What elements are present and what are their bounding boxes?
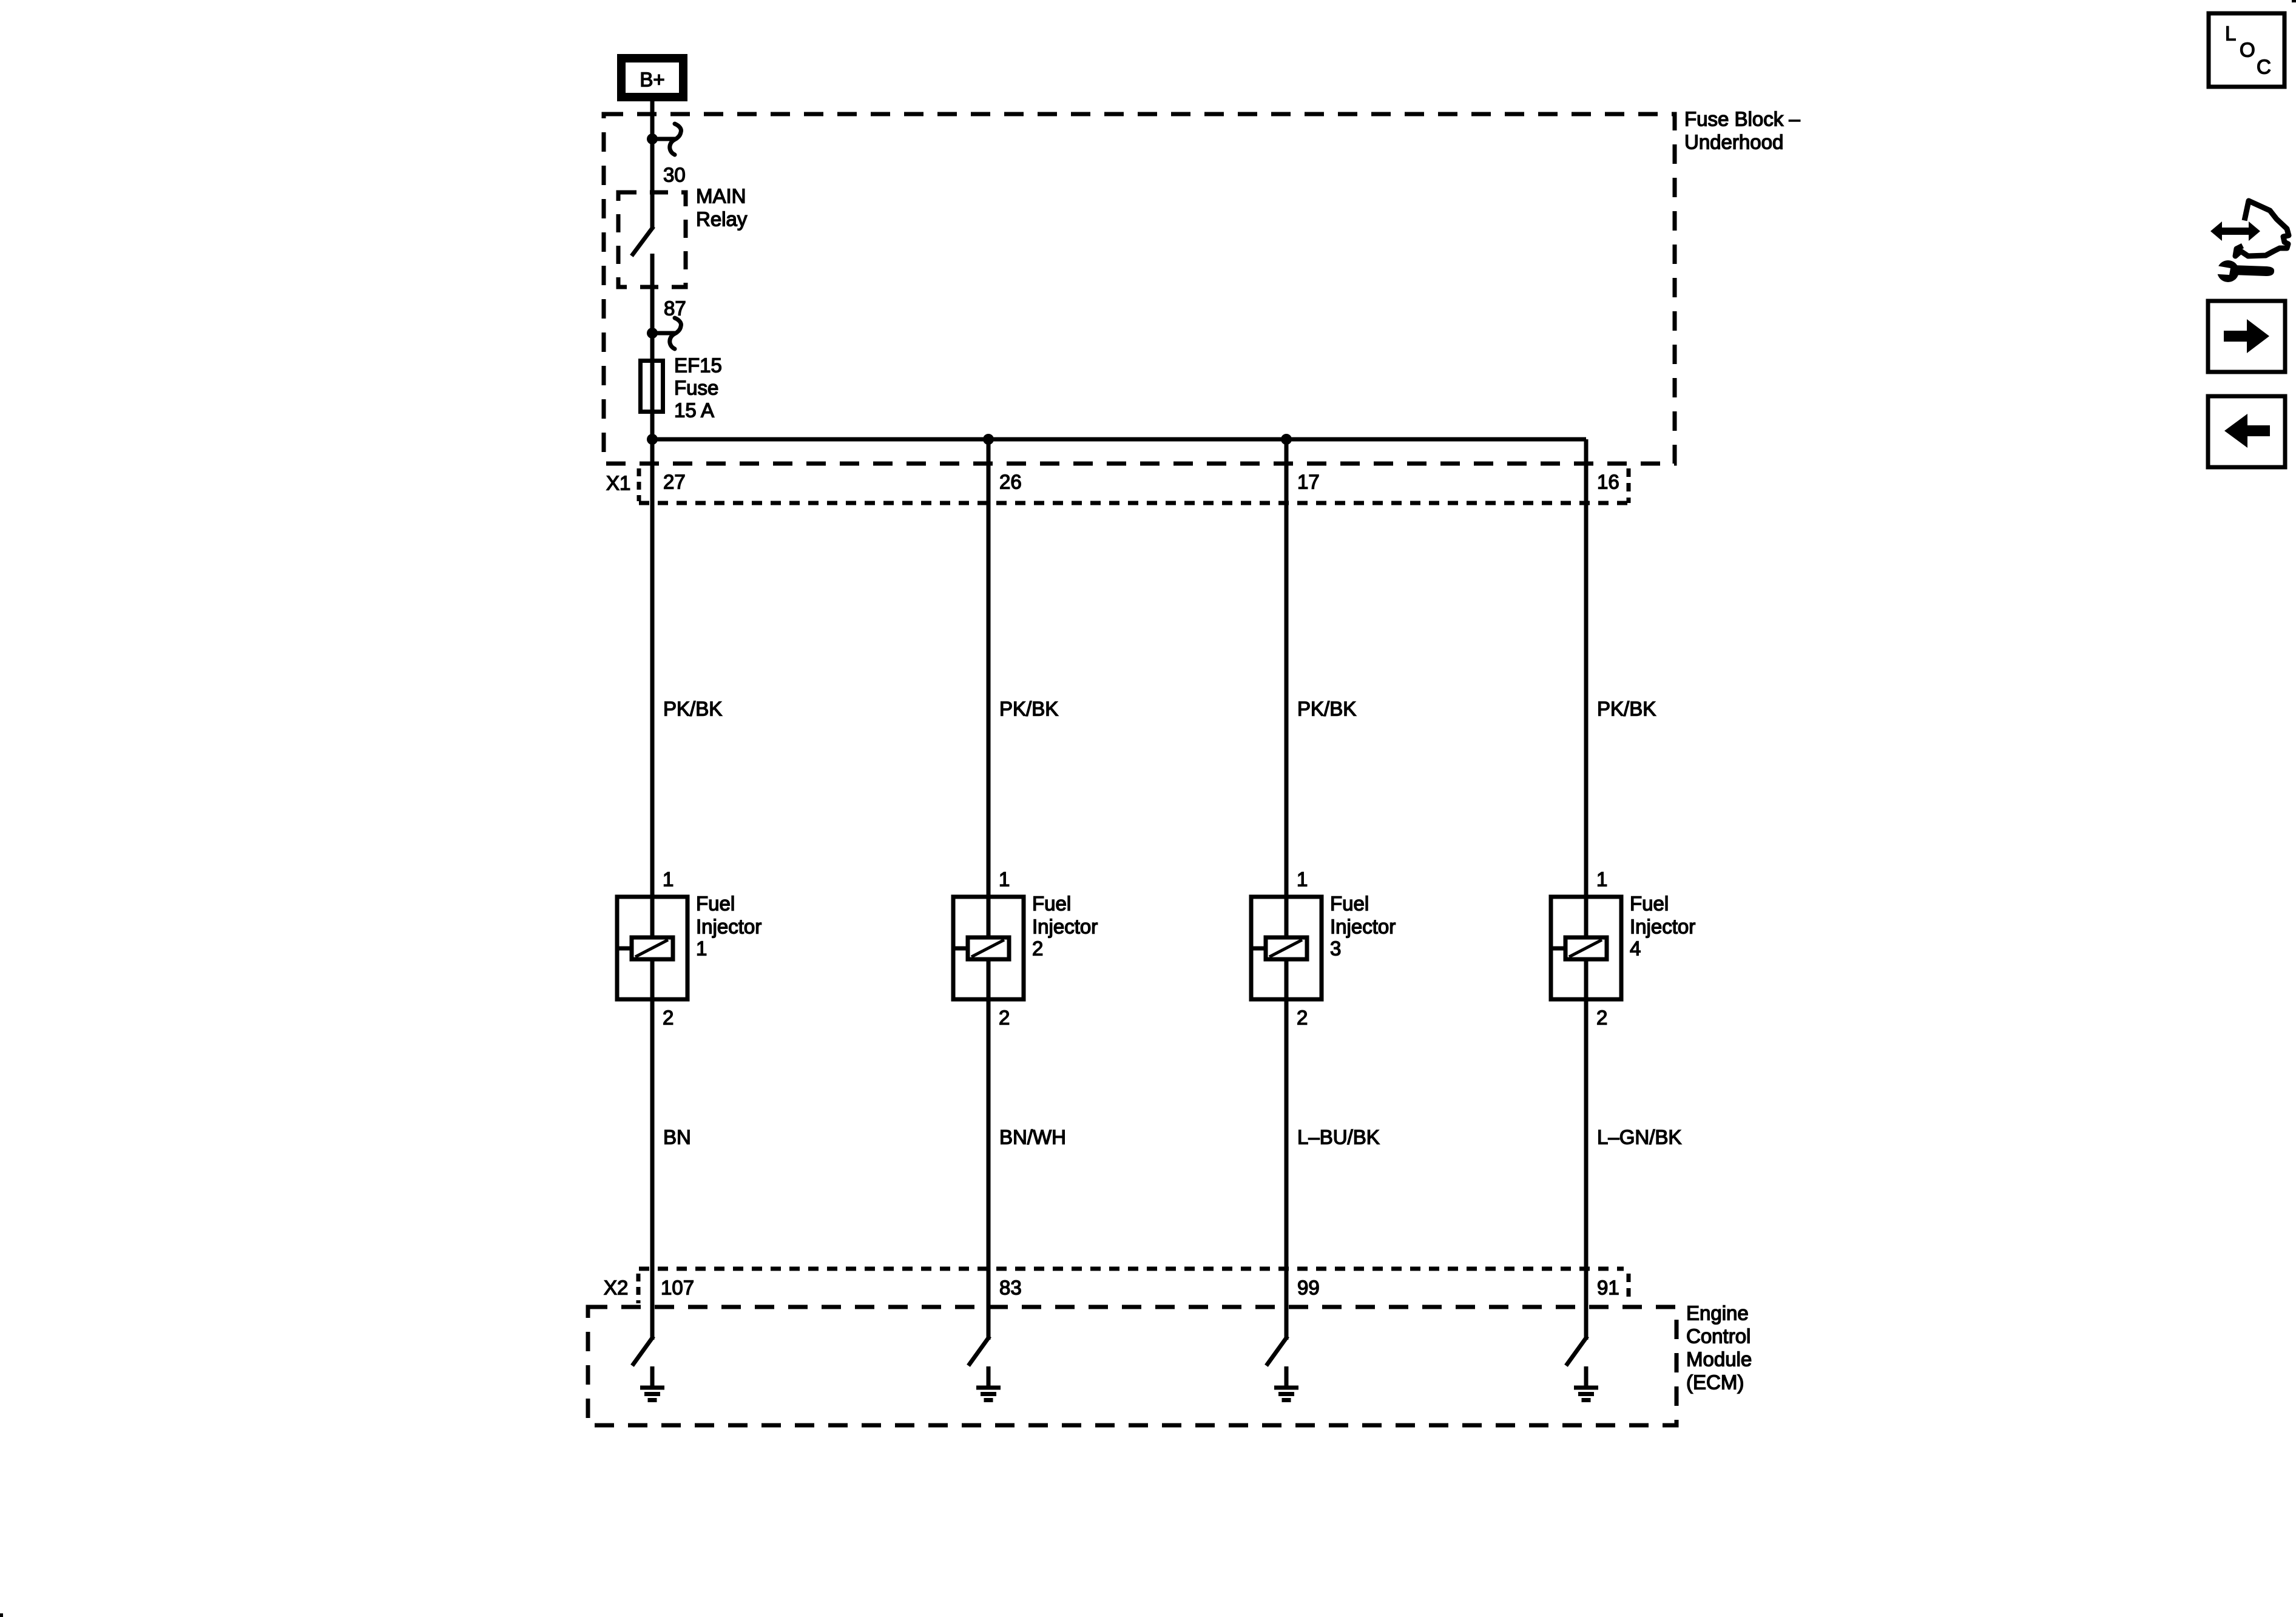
wire 1 injector return BN xyxy=(650,959,655,1340)
injector 2 pin 1 label xyxy=(999,868,1010,891)
Fuel Injector 4 label xyxy=(1630,893,1695,960)
svg-text:1: 1 xyxy=(999,868,1010,891)
fuel injector 1 solenoid coil xyxy=(617,937,673,959)
svg-text:X1: X1 xyxy=(606,472,630,495)
svg-text:30: 30 xyxy=(663,164,686,186)
injector 3 pin 1 label xyxy=(1297,868,1308,891)
injector 4 pin 2 label xyxy=(1596,1007,1607,1029)
junction node wire 2 xyxy=(983,434,994,445)
junction node below fuse xyxy=(647,434,658,445)
wire 2 injector return BN/WH xyxy=(987,959,991,1340)
wire color label PK/BK #4 xyxy=(1597,698,1656,720)
forward arrow box xyxy=(2208,301,2285,372)
ground symbol 4 xyxy=(1574,1366,1598,1400)
svg-text:Injector: Injector xyxy=(1630,916,1695,938)
svg-text:15 A: 15 A xyxy=(674,399,714,422)
X2 pin 91 label xyxy=(1597,1277,1619,1299)
svg-text:Fuel: Fuel xyxy=(1630,893,1669,915)
svg-text:3: 3 xyxy=(1330,937,1341,960)
junction node wire 3 xyxy=(1281,434,1292,445)
svg-text:2: 2 xyxy=(1297,1007,1308,1029)
X2 pin 99 label xyxy=(1297,1277,1320,1299)
ECM driver switch 2 xyxy=(970,1338,988,1364)
svg-text:99: 99 xyxy=(1297,1277,1320,1299)
ground symbol 2 xyxy=(976,1366,1001,1400)
wire 4 feed PK/BK xyxy=(1584,439,1589,939)
wire relay 87 to fuse xyxy=(650,254,655,360)
wire 2 feed PK/BK xyxy=(987,439,991,939)
svg-text:Engine: Engine xyxy=(1686,1302,1749,1325)
injector 3 pin 2 label xyxy=(1297,1007,1308,1029)
X2 pin 107 label xyxy=(661,1277,694,1299)
connector X1 left bracket xyxy=(637,468,641,501)
connector service icon: connector outline xyxy=(2235,201,2289,256)
wire 3 injector return L–BU/BK xyxy=(1285,959,1289,1340)
svg-text:Module: Module xyxy=(1686,1348,1752,1371)
battery feed terminal B+ xyxy=(621,58,683,97)
svg-text:C: C xyxy=(2257,56,2271,78)
svg-text:O: O xyxy=(2240,39,2255,61)
page corner mark top-right xyxy=(2292,0,2296,2)
connector X1 right bracket xyxy=(1627,468,1631,503)
connector X1 lower dashed line xyxy=(639,501,1627,505)
svg-text:1: 1 xyxy=(1596,868,1607,891)
svg-text:PK/BK: PK/BK xyxy=(999,698,1058,720)
X1 pin 26 label xyxy=(999,471,1022,493)
svg-text:83: 83 xyxy=(999,1277,1022,1299)
svg-text:B+: B+ xyxy=(640,69,664,91)
fuel injector 3 solenoid coil xyxy=(1251,937,1307,959)
wire B+ to relay terminal 30 xyxy=(650,97,655,141)
LOC reference box xyxy=(2209,13,2284,87)
MAIN Relay label xyxy=(696,185,748,231)
wire color label BN xyxy=(663,1126,691,1149)
svg-text:L–GN/BK: L–GN/BK xyxy=(1597,1126,1681,1149)
injector 1 pin 1 label xyxy=(663,868,674,891)
supply bus wire across to injector feeds xyxy=(652,437,1586,442)
connector service icon: double arrow xyxy=(2210,221,2260,241)
X1 pin 16 label xyxy=(1597,471,1619,493)
svg-text:1: 1 xyxy=(663,868,674,891)
fuel injector 4 box xyxy=(1551,897,1621,999)
Fuel Injector 1 label xyxy=(696,893,761,960)
wire color label BN/WH xyxy=(999,1126,1066,1149)
wire color label PK/BK #1 xyxy=(663,698,722,720)
wire color label L–BU/BK xyxy=(1297,1126,1380,1149)
svg-text:2: 2 xyxy=(999,1007,1010,1029)
pin 30 label xyxy=(663,164,686,186)
svg-text:Fuel: Fuel xyxy=(1032,893,1071,915)
svg-text:L: L xyxy=(2225,22,2236,45)
injector 1 pin 2 label xyxy=(663,1007,674,1029)
wire color label L–GN/BK xyxy=(1597,1126,1681,1149)
wire 1 feed PK/BK xyxy=(650,439,655,939)
svg-text:Relay: Relay xyxy=(696,208,748,231)
Engine Control Module dashed box xyxy=(588,1307,1676,1425)
svg-text:Fuse Block –: Fuse Block – xyxy=(1684,108,1800,130)
relay terminal 30 clip symbol xyxy=(647,124,681,155)
svg-text:107: 107 xyxy=(661,1277,694,1299)
svg-text:1: 1 xyxy=(1297,868,1308,891)
relay terminal 87 clip symbol xyxy=(647,318,681,349)
relay switch contact (open) xyxy=(633,139,652,254)
Fuel Injector 2 label xyxy=(1032,893,1098,960)
ECM label xyxy=(1686,1302,1752,1394)
injector 2 pin 2 label xyxy=(999,1007,1010,1029)
fuel injector 2 box xyxy=(953,897,1024,999)
Fuse Block label xyxy=(1684,108,1800,154)
wire color label PK/BK #2 xyxy=(999,698,1058,720)
svg-text:26: 26 xyxy=(999,471,1022,493)
MAIN Relay dashed box xyxy=(618,192,686,287)
X2 label xyxy=(604,1277,628,1299)
X1 pin 27 label xyxy=(663,471,686,493)
connector X2 left bracket xyxy=(636,1274,641,1303)
ECM driver switch 4 xyxy=(1567,1338,1586,1364)
fuel injector 2 solenoid coil xyxy=(953,937,1009,959)
injector 4 pin 1 label xyxy=(1596,868,1607,891)
Fuse Block - Underhood dashed box xyxy=(604,114,1675,464)
fuel injector 4 solenoid coil xyxy=(1551,937,1607,959)
ground symbol 1 xyxy=(640,1366,664,1400)
svg-text:BN/WH: BN/WH xyxy=(999,1126,1066,1149)
svg-text:2: 2 xyxy=(1032,937,1043,960)
wire 4 injector return L–GN/BK xyxy=(1584,959,1589,1340)
svg-text:27: 27 xyxy=(663,471,686,493)
svg-text:Control: Control xyxy=(1686,1325,1751,1348)
fuse EF15 label xyxy=(674,354,722,422)
back arrow box xyxy=(2208,396,2285,467)
ECM driver switch 1 xyxy=(633,1338,652,1364)
wire 3 feed PK/BK xyxy=(1285,439,1289,939)
svg-text:X2: X2 xyxy=(604,1277,628,1299)
svg-text:Underhood: Underhood xyxy=(1684,131,1783,154)
svg-text:Injector: Injector xyxy=(1330,916,1396,938)
svg-text:PK/BK: PK/BK xyxy=(1297,698,1356,720)
connector service icon: wrench xyxy=(2209,260,2274,282)
ground symbol 3 xyxy=(1274,1366,1298,1400)
svg-text:2: 2 xyxy=(1596,1007,1607,1029)
svg-text:17: 17 xyxy=(1297,471,1320,493)
X2 pin 83 label xyxy=(999,1277,1022,1299)
svg-text:Fuel: Fuel xyxy=(696,893,735,915)
svg-text:Injector: Injector xyxy=(696,916,761,938)
svg-text:4: 4 xyxy=(1630,937,1641,960)
fuel injector 3 box xyxy=(1251,897,1322,999)
svg-text:1: 1 xyxy=(696,937,707,960)
svg-text:91: 91 xyxy=(1597,1277,1619,1299)
svg-text:Fuel: Fuel xyxy=(1330,893,1369,915)
ECM driver switch 3 xyxy=(1268,1338,1286,1364)
svg-text:BN: BN xyxy=(663,1126,691,1149)
wire color label PK/BK #3 xyxy=(1297,698,1356,720)
svg-text:MAIN: MAIN xyxy=(696,185,746,208)
wire fuse to bus junction xyxy=(650,414,655,442)
fuel injector 1 box xyxy=(617,897,687,999)
page corner mark bottom-left xyxy=(0,1613,3,1617)
svg-text:(ECM): (ECM) xyxy=(1686,1371,1744,1394)
svg-text:Fuse: Fuse xyxy=(674,377,718,399)
svg-text:PK/BK: PK/BK xyxy=(663,698,722,720)
Fuel Injector 3 label xyxy=(1330,893,1396,960)
connector X2 right bracket xyxy=(1627,1274,1631,1302)
connector X2 upper dotted line xyxy=(639,1267,1624,1271)
X1 label xyxy=(606,472,630,495)
svg-text:2: 2 xyxy=(663,1007,674,1029)
svg-text:L–BU/BK: L–BU/BK xyxy=(1297,1126,1380,1149)
svg-text:Injector: Injector xyxy=(1032,916,1098,938)
pin 87 label xyxy=(664,297,686,320)
svg-text:PK/BK: PK/BK xyxy=(1597,698,1656,720)
X1 pin 17 label xyxy=(1297,471,1320,493)
fuse EF15 15A body xyxy=(641,359,663,414)
svg-text:EF15: EF15 xyxy=(674,354,722,377)
svg-text:16: 16 xyxy=(1597,471,1619,493)
